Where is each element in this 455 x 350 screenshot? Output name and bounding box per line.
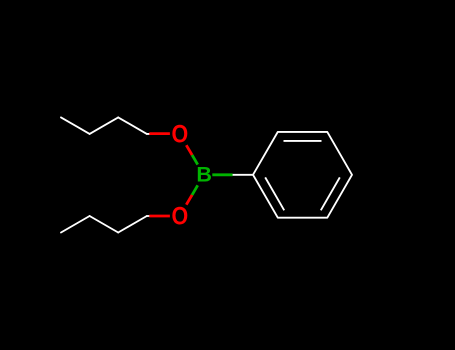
bond C1-C2 top chain	[118, 117, 147, 133]
svg-text:B: B	[196, 163, 212, 187]
svg-text:O: O	[171, 202, 188, 230]
bond O1-B red part	[186, 145, 192, 155]
benzene ring outline	[253, 132, 352, 218]
bond C3-C4 top chain	[61, 117, 90, 133]
benzene inner double bond top	[265, 141, 340, 210]
benzene inner double bond lower-right	[321, 177, 340, 210]
bond B-O1 green part	[192, 155, 233, 195]
bond O1-C1 red half	[149, 134, 192, 216]
bond C1'-C2' bottom chain	[118, 216, 147, 233]
wire: bond C1-O1 white half	[61, 117, 253, 232]
bond C3'-C4' bottom chain	[61, 216, 90, 233]
bond B-ring green half	[212, 173, 232, 176]
bond B-ring white half	[233, 174, 253, 176]
bond B-O2 green part	[192, 185, 198, 195]
bond C2'-C3' bottom chain	[90, 216, 119, 233]
bond O2-C1' red half	[149, 215, 170, 218]
bond C2-C3 top chain	[90, 117, 119, 133]
bond C1'-O2 white half	[147, 215, 151, 217]
svg-text:O: O	[171, 120, 188, 148]
bond O2-B red part	[186, 195, 192, 205]
benzene inner double bond lower-left	[265, 177, 284, 210]
